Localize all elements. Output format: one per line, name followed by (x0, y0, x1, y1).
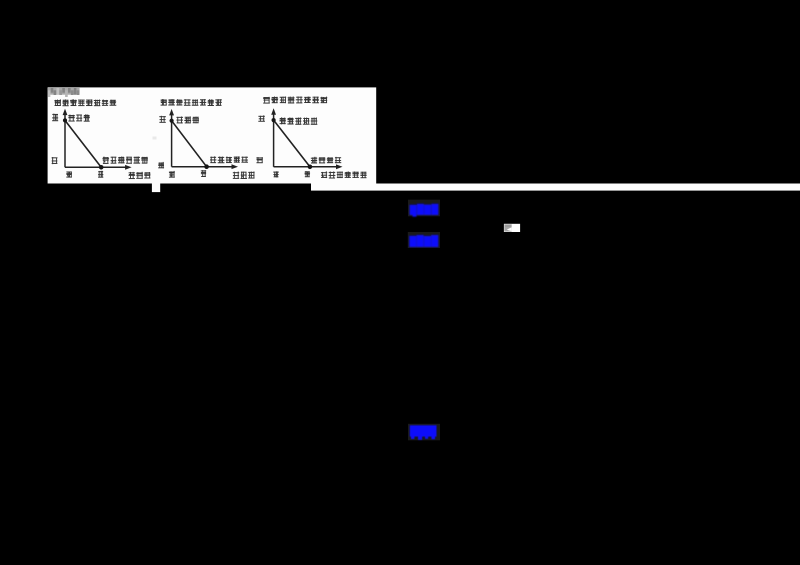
chart2 x-axis (172, 164, 238, 169)
chart3 label 弱 (273, 171, 279, 177)
chart3 point high (272, 118, 276, 122)
small white box with gray glyph (504, 224, 520, 232)
hyperlink block 3 (dark box) (408, 424, 440, 441)
chart1 y-axis (63, 109, 68, 168)
chart3 curve (diagonal) (274, 120, 310, 167)
chart2 curve (diagonal) (172, 121, 207, 167)
chart3 x-axis (274, 164, 343, 169)
chart3 title 被电脑取代的概率 (263, 96, 327, 103)
chart3 label 电话推销员 (279, 117, 317, 124)
chart3 point low (308, 165, 313, 170)
white tab (152, 184, 160, 193)
chart1 label 弱 (66, 171, 72, 177)
chart2 label 弱 (169, 171, 175, 178)
chart1 label 低 (52, 157, 58, 164)
chart3 label 强 (305, 171, 311, 177)
chart1 label 高 (52, 114, 58, 122)
chart2 label 强 (201, 170, 206, 177)
chart2 y-axis (169, 109, 174, 167)
hyperlink block 3 blue text (410, 425, 437, 440)
chart2 label 速记员 (176, 116, 199, 123)
hyperlink block 2 blue text (409, 235, 438, 247)
pixelated gray block (48, 88, 80, 97)
chart1 point low (99, 165, 104, 170)
hyperlink block 1 (dark box) (408, 200, 440, 217)
chart1 label 洗碗工 (68, 114, 89, 121)
figure panel (white) (48, 87, 377, 183)
chart2 point low (204, 164, 209, 169)
hyperlink block 2 (dark box) (408, 232, 440, 248)
chart1 label 公共关系专家 (102, 156, 147, 163)
chart1 title 被电脑取代的概率 (54, 99, 116, 106)
chart1 x-axis (65, 165, 132, 170)
white strip under panel (311, 184, 800, 191)
chart1 label 强 (98, 171, 103, 178)
chart3 y-axis (271, 108, 276, 167)
hyperlink block 1 blue text (410, 204, 439, 217)
chart3 axis label 感知和操控性 (321, 171, 367, 178)
chart3 label 高 (258, 115, 265, 121)
chart3 label 低 (256, 157, 263, 163)
chart3 label 外科医生 (311, 157, 341, 164)
chart2 axis label 创造性 (233, 171, 255, 179)
chart1 curve (diagonal) (65, 120, 101, 167)
chart1 axis label 社交性 (129, 172, 151, 179)
chart2 title 被电脑取代的概率 (161, 99, 222, 106)
chart2 point high (170, 119, 174, 123)
chart2 label 高 (159, 116, 166, 123)
chart2 label 低 (158, 162, 164, 168)
faint smudge (153, 137, 157, 140)
chart1 point high (63, 118, 67, 122)
chart2 label 时尚设计师 (210, 156, 248, 163)
